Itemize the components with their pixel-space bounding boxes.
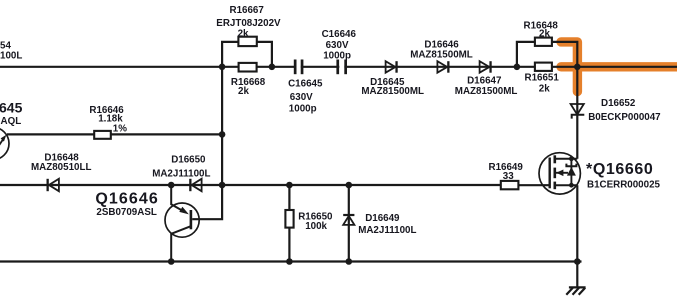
node (Q16646 collector bottom) (168, 258, 175, 265)
svg-text:645: 645 (0, 100, 23, 116)
node (source/ground) (574, 258, 581, 265)
wire: R16649 to Q16660 gate (518, 184, 549, 186)
capacitor C16645 (plates) (294, 60, 304, 75)
wire: middle net y=185 from left edge to R16649 (0, 184, 501, 186)
wire: R16650 vertical branch (288, 185, 290, 262)
svg-text:1000p: 1000p (323, 50, 351, 61)
wire: R16667 parallel branch (222, 42, 272, 67)
resistor R16667 (box) (238, 37, 256, 46)
svg-text:MAZ81500ML: MAZ81500ML (455, 86, 518, 97)
node (highlighted junction) (574, 64, 581, 71)
svg-text:2k: 2k (539, 28, 550, 39)
svg-text:MA2J11100L: MA2J11100L (358, 225, 416, 236)
internal junctions (569, 156, 574, 161)
svg-text:2k: 2k (238, 28, 249, 39)
wire: main top net right of C16646 to right edge (344, 66, 677, 68)
transistor Q16646 (PNP) (165, 185, 199, 262)
svg-text:*Q16660: *Q16660 (586, 161, 653, 178)
resistor R16651 (box) (535, 63, 552, 71)
node (Q16646 base branch) (219, 182, 226, 189)
svg-text:1.18k: 1.18k (98, 113, 123, 124)
svg-text:C16645: C16645 (288, 79, 323, 90)
wire: R16646 net (Q16645 emitter to vertical) (7, 133, 222, 135)
body diode (570, 159, 572, 185)
transistor Q16645 (partial, left edge) (0, 127, 9, 159)
svg-text:B0ECKP000047: B0ECKP000047 (588, 112, 661, 123)
diode D16649 (343, 214, 354, 225)
wire: Q16660 source to bottom net (576, 185, 578, 261)
drain inner lead (555, 158, 578, 160)
wire: bottom net y=261.5 (0, 260, 582, 262)
resistor R16650 (box, vertical) (285, 210, 293, 228)
node (D16649 top) (346, 182, 353, 189)
resistor R16648 (box) (535, 38, 552, 46)
svg-text:MAZ81500ML: MAZ81500ML (361, 86, 424, 97)
svg-text:2k: 2k (539, 84, 550, 95)
svg-text:R16667: R16667 (230, 5, 265, 16)
svg-text:100L: 100L (0, 50, 22, 61)
svg-text:Q16646: Q16646 (95, 190, 159, 207)
svg-text:100k: 100k (305, 221, 327, 232)
wire: ground stub (576, 262, 578, 288)
wire: between C16645 and C16646 (301, 66, 340, 68)
wire: vertical from node A down to Q16646 base (192, 67, 222, 219)
node (R16646 right) (219, 131, 226, 138)
diode D16645 (386, 61, 398, 72)
wire: main top net y=66.8 (left of C16645) (0, 66, 296, 68)
wire: R16648 output to highlighted corner (552, 42, 577, 67)
capacitor C16646 (plates) (336, 60, 347, 75)
node (D16649 bottom) (346, 258, 353, 265)
svg-text:2SB0709ASL: 2SB0709ASL (96, 207, 156, 218)
svg-text:D16649: D16649 (365, 213, 400, 224)
node (R16648 branch) (514, 64, 521, 71)
node (Q16646 emitter) (168, 182, 175, 189)
svg-text:1000p: 1000p (289, 104, 317, 115)
gate bar (549, 158, 551, 189)
svg-text:1%: 1% (113, 124, 127, 135)
svg-text:AQL: AQL (1, 116, 22, 127)
svg-text:MAZ80510LL: MAZ80510LL (31, 162, 91, 173)
svg-text:D16650: D16650 (171, 155, 206, 166)
svg-text:2k: 2k (238, 86, 249, 97)
source inner lead (555, 184, 578, 186)
svg-text:33: 33 (503, 171, 514, 182)
wire: drain vertical through D16652 (576, 67, 578, 159)
zener diode D16652 (571, 104, 585, 119)
body arrow (556, 172, 568, 174)
MOSFET Q16660 (539, 153, 580, 194)
svg-text:R16651: R16651 (525, 73, 560, 84)
wire: D16649 vertical branch (348, 185, 350, 262)
node (R16650 top) (286, 182, 293, 189)
node (R16667 right) (269, 64, 276, 71)
svg-text:MA2J11100L: MA2J11100L (152, 168, 210, 179)
ground (chassis) (566, 287, 585, 294)
resistor R16646 (box) (94, 131, 111, 139)
node A (R16667 left) (219, 64, 226, 71)
resistor R16649 (box) (501, 181, 519, 189)
highlighted net (orange) main wire to right edge (561, 62, 677, 71)
svg-text:B1CERR000025: B1CERR000025 (587, 180, 661, 191)
svg-text:630V: 630V (290, 92, 313, 103)
diode D16648 (47, 179, 59, 191)
diode D16650 (189, 179, 201, 191)
diode D16647 (480, 61, 492, 72)
svg-text:ERJT08J202V: ERJT08J202V (216, 18, 281, 29)
node (R16650 bottom) (286, 258, 293, 265)
highlighted net (orange) top branch (561, 42, 577, 92)
channel segments (553, 155, 556, 189)
svg-text:D16652: D16652 (601, 98, 636, 109)
diode D16646 (437, 61, 449, 72)
wire: R16648 branch (517, 42, 535, 67)
svg-text:C16646: C16646 (322, 29, 357, 40)
svg-text:MAZ81500ML: MAZ81500ML (410, 50, 473, 61)
resistor R16668 (box) (239, 63, 257, 72)
